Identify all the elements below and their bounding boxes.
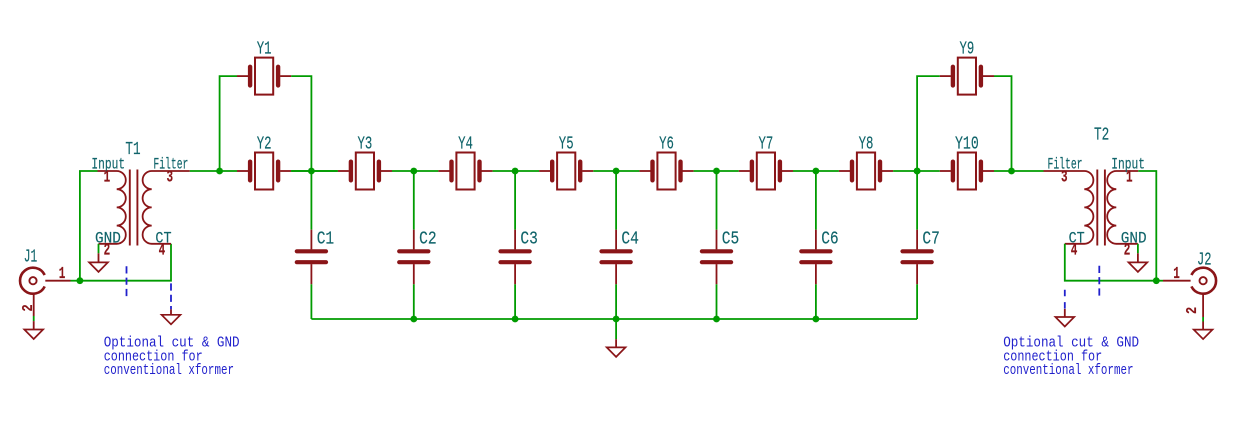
pin number 4 of T2 <box>1071 241 1078 260</box>
wire segment 5 <box>793 170 839 172</box>
junction main line x815 <box>813 168 820 175</box>
junction left branch <box>216 168 223 175</box>
pin name CT T2 <box>1069 230 1085 248</box>
svg-text:C5: C5 <box>722 229 740 250</box>
label T1 <box>125 139 140 160</box>
pin name CT <box>155 230 171 248</box>
svg-text:C1: C1 <box>317 229 335 250</box>
label C6 <box>821 229 839 250</box>
svg-text:T1: T1 <box>125 139 140 160</box>
crystal Y8 <box>839 153 893 190</box>
pin number 2 of T1 <box>104 241 111 260</box>
wire riser J1 to T1 input <box>80 171 98 281</box>
svg-text:4: 4 <box>159 241 166 260</box>
label J1 <box>24 247 38 268</box>
label C1 <box>317 229 335 250</box>
label Y10 <box>955 133 979 154</box>
dashed cut line left 1 <box>126 266 128 296</box>
svg-text:2: 2 <box>1184 307 1201 314</box>
pin number 2 of J2 <box>1184 307 1201 314</box>
dashed cut line right 1 <box>1064 290 1066 309</box>
pin number 2 of T2 <box>1124 241 1131 260</box>
svg-text:1: 1 <box>1173 264 1180 283</box>
svg-text:1: 1 <box>1126 168 1133 187</box>
junction right branch <box>1008 168 1015 175</box>
wire cap 6 top <box>815 171 817 230</box>
connector J1 <box>20 268 70 316</box>
label Y2 <box>257 133 272 154</box>
dashed cut line left 2 <box>170 283 172 309</box>
pin number 3 of T1 <box>167 168 174 187</box>
wire cap 7 bottom <box>916 284 918 319</box>
capacitor C2 <box>399 230 428 285</box>
label Y8 <box>859 133 874 154</box>
svg-text:C4: C4 <box>621 229 639 250</box>
crystal Y7 <box>739 153 793 190</box>
svg-text:J1: J1 <box>24 247 38 268</box>
ground at T2 GND pin <box>1129 244 1148 272</box>
crystal Y5 <box>539 153 593 190</box>
junction at J1 <box>77 277 84 284</box>
capacitor C1 <box>297 230 326 285</box>
wire T1 filter to Y2 <box>190 170 237 172</box>
svg-text:C7: C7 <box>922 229 940 250</box>
label Y6 <box>659 133 674 154</box>
junction at J2 <box>1153 277 1160 284</box>
ground at T1 GND pin <box>89 244 108 272</box>
svg-text:Y5: Y5 <box>559 133 574 154</box>
crystal Y9 <box>940 58 994 95</box>
wire Y9 to right corner <box>994 76 1012 171</box>
svg-text:2: 2 <box>20 304 37 311</box>
svg-text:Y1: Y1 <box>257 39 272 60</box>
junction main line x917 <box>914 168 921 175</box>
svg-text:Y9: Y9 <box>960 39 975 60</box>
wire cap 2 top <box>413 171 415 230</box>
wire segment 2 <box>493 170 539 172</box>
svg-text:Y8: Y8 <box>859 133 874 154</box>
wire bottom bus J1 to CT <box>80 244 171 281</box>
wire Y1 to right corner <box>291 76 311 171</box>
ground at bus centre <box>607 319 626 357</box>
svg-text:3: 3 <box>167 168 174 187</box>
pin name Input T2 <box>1111 156 1145 174</box>
note text right <box>1003 335 1139 380</box>
wire cap 4 top <box>615 171 617 230</box>
ground bus <box>311 318 917 320</box>
junction ground bus x616 <box>613 316 620 323</box>
svg-text:Y3: Y3 <box>358 133 373 154</box>
wire cap 6 bottom <box>815 284 817 319</box>
wire cap 5 top <box>716 171 718 230</box>
capacitor C5 <box>702 230 731 285</box>
note text left <box>104 335 240 380</box>
svg-text:4: 4 <box>1071 241 1078 260</box>
svg-text:3: 3 <box>1061 168 1068 187</box>
svg-text:C6: C6 <box>821 229 839 250</box>
svg-text:conventional xformer: conventional xformer <box>1003 362 1133 379</box>
junction main line x716 <box>713 168 720 175</box>
label J2 <box>1197 249 1212 270</box>
label C7 <box>922 229 940 250</box>
connector J2 <box>1163 268 1216 317</box>
junction main line x413 <box>410 168 417 175</box>
crystal Y4 <box>438 153 492 190</box>
pin name Filter <box>153 156 188 174</box>
pin number 3 of T2 <box>1061 168 1068 187</box>
crystal Y10 <box>940 153 994 190</box>
wire cap 1 bottom <box>310 284 312 319</box>
label Y1 <box>257 39 272 60</box>
wire segment 0 <box>291 170 338 172</box>
wire riser T2 input <box>1138 171 1156 281</box>
svg-text:C3: C3 <box>520 229 538 250</box>
label C5 <box>722 229 740 250</box>
junction ground bus x716 <box>713 316 720 323</box>
wire bottom bus T2 <box>1065 244 1157 281</box>
wire cap 5 bottom <box>716 284 718 319</box>
capacitor C3 <box>501 230 530 285</box>
junction ground bus x413 <box>410 316 417 323</box>
svg-text:Y7: Y7 <box>759 133 774 154</box>
crystal Y6 <box>639 153 693 190</box>
label C4 <box>621 229 639 250</box>
svg-text:C2: C2 <box>419 229 437 250</box>
pin name GND <box>95 230 121 248</box>
ground at J2 pin 2 <box>1194 317 1213 339</box>
wire Y8 to Y10 <box>893 170 940 172</box>
pin number 1 of T2 <box>1126 168 1133 187</box>
svg-text:1: 1 <box>104 168 111 187</box>
pin number 4 of T1 <box>159 241 166 260</box>
wire cap 7 top <box>916 171 918 230</box>
pin name GND T2 <box>1121 230 1147 248</box>
svg-text:Y4: Y4 <box>458 133 473 154</box>
wire segment 4 <box>694 170 739 172</box>
transformer T1 <box>98 170 190 246</box>
junction ground bus x515 <box>512 316 519 323</box>
pin number 1 of T1 <box>104 168 111 187</box>
svg-text:Y6: Y6 <box>659 133 674 154</box>
svg-text:Y10: Y10 <box>955 133 979 154</box>
pin number 1 of J1 <box>59 264 66 283</box>
capacitor C7 <box>903 230 932 285</box>
wire cap 4 bottom <box>615 284 617 319</box>
crystal Y1 <box>237 58 291 95</box>
wire J1 pin1 to junction <box>71 280 80 282</box>
pin number 1 of J2 <box>1173 264 1180 283</box>
ground optional left <box>162 309 181 324</box>
transformer T2 <box>1044 170 1139 246</box>
capacitor C6 <box>801 230 830 285</box>
label C3 <box>520 229 538 250</box>
wire junction to J2 pin <box>1156 280 1163 282</box>
svg-text:2: 2 <box>1124 241 1131 260</box>
label Y4 <box>458 133 473 154</box>
pin number 2 of J1 <box>20 304 37 311</box>
junction main line x311 <box>308 168 315 175</box>
label Y5 <box>559 133 574 154</box>
wire segment 1 <box>392 170 438 172</box>
junction main line x616 <box>613 168 620 175</box>
capacitor C4 <box>602 230 631 285</box>
wire segment 3 <box>593 170 639 172</box>
label C2 <box>419 229 437 250</box>
label Y3 <box>358 133 373 154</box>
ground optional right <box>1055 309 1074 327</box>
pin name Input <box>91 156 125 174</box>
dashed cut line right 2 <box>1098 266 1100 297</box>
ground at J1 pin 2 <box>24 316 43 339</box>
svg-text:conventional xformer: conventional xformer <box>104 362 234 379</box>
wire riser to Y1 <box>220 76 237 171</box>
junction right branch corner <box>914 168 921 175</box>
svg-text:1: 1 <box>59 264 66 283</box>
wire cap 3 top <box>514 171 516 230</box>
wire riser to Y9 <box>917 76 940 171</box>
svg-text:T2: T2 <box>1094 125 1109 146</box>
wire cap 3 bottom <box>514 284 516 319</box>
label Y9 <box>960 39 975 60</box>
label Y7 <box>759 133 774 154</box>
svg-text:2: 2 <box>104 241 111 260</box>
crystal Y3 <box>338 153 392 190</box>
wire Y10 to T2 <box>994 170 1044 172</box>
crystal Y2 <box>237 153 291 190</box>
svg-text:Y2: Y2 <box>257 133 272 154</box>
junction main line x515 <box>512 168 519 175</box>
svg-text:J2: J2 <box>1197 249 1212 270</box>
label T2 <box>1094 125 1109 146</box>
wire cap 2 bottom <box>413 284 415 319</box>
wire cap 1 top <box>310 171 312 230</box>
wire Y2 to Y3 <box>291 170 338 172</box>
pin name Filter T2 <box>1048 156 1083 174</box>
junction ground bus x815 <box>813 316 820 323</box>
